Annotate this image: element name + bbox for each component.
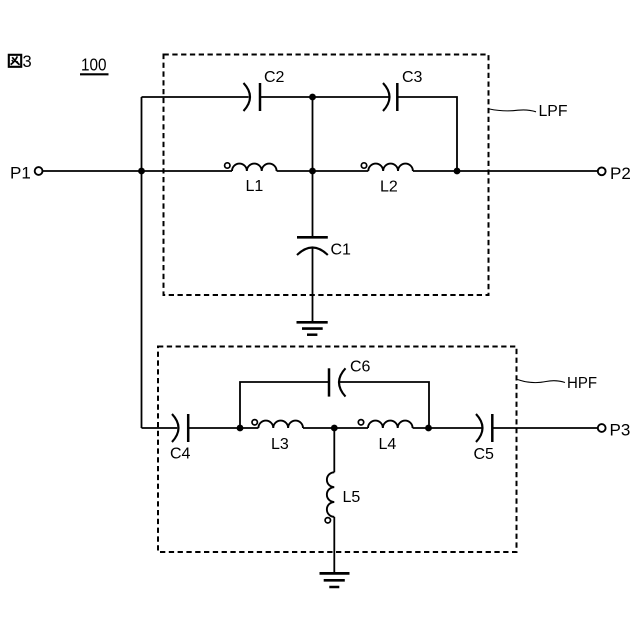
- capacitor C6: [329, 368, 346, 396]
- svg-text:C5: C5: [474, 446, 495, 463]
- terminal P3: [598, 424, 606, 432]
- svg-text:L2: L2: [380, 179, 398, 196]
- svg-text:C2: C2: [264, 69, 285, 86]
- label HPF with leader: [518, 380, 566, 383]
- terminal P1: [35, 167, 43, 175]
- svg-text:C6: C6: [350, 358, 371, 375]
- wire top branch to C2: [142, 96, 249, 98]
- capacitor C2: [244, 83, 261, 111]
- label LPF with leader: [490, 109, 537, 112]
- wire C2 to C3: [260, 96, 389, 98]
- wire C5 to P3: [492, 427, 598, 429]
- wire trunk corner to C4: [142, 427, 178, 429]
- LPF dashed box: [164, 55, 489, 296]
- svg-text:P2: P2: [610, 164, 631, 183]
- svg-text:HPF: HPF: [567, 375, 597, 392]
- wire C1 to ground: [312, 248, 314, 323]
- svg-text:L4: L4: [379, 436, 397, 453]
- svg-text:LPF: LPF: [539, 103, 568, 120]
- capacitor C4: [172, 414, 188, 442]
- wire center to L4: [334, 427, 368, 429]
- svg-text:P3: P3: [610, 421, 631, 440]
- node HPF right junction: [425, 425, 432, 432]
- wire L3 to center: [303, 427, 334, 429]
- node top center junction: [309, 94, 316, 101]
- svg-text:L5: L5: [343, 489, 361, 506]
- svg-text:3: 3: [23, 53, 32, 71]
- svg-text:C4: C4: [170, 446, 191, 463]
- wire C4 to L3: [188, 427, 258, 429]
- inductor L5: [325, 472, 334, 523]
- capacitor C3: [383, 83, 397, 111]
- svg-text:100: 100: [81, 55, 107, 75]
- wire input vertical trunk: [141, 97, 143, 428]
- capacitor C5: [476, 414, 492, 442]
- svg-text:C3: C3: [402, 69, 423, 86]
- wire center to L5: [333, 428, 335, 472]
- wire L4 to C5: [413, 427, 482, 429]
- ground HPF: [320, 573, 350, 587]
- svg-text:L1: L1: [246, 178, 264, 195]
- wire C3 to right corner: [397, 97, 457, 171]
- figure label 図3: [9, 55, 21, 67]
- wire L1 to center: [277, 170, 313, 172]
- node LPF center junction: [309, 168, 316, 175]
- node LPF output junction: [454, 168, 461, 175]
- wire L5 to ground: [333, 517, 335, 574]
- capacitor C1: [297, 237, 328, 255]
- inductor L2: [361, 163, 413, 171]
- ground LPF: [297, 322, 328, 334]
- inductor L1: [225, 163, 277, 171]
- wire P1 to L1: [43, 170, 232, 172]
- wire center vertical to C1: [312, 97, 314, 237]
- node HPF left junction: [237, 425, 244, 432]
- svg-text:L3: L3: [271, 436, 289, 453]
- node HPF center junction: [331, 425, 338, 432]
- wire C6 left branch: [240, 382, 329, 428]
- wire center to L2: [313, 170, 369, 172]
- inductor L4: [358, 420, 412, 428]
- wire L2 to P2: [413, 170, 598, 172]
- terminal P2: [598, 167, 606, 175]
- HPF dashed box: [158, 347, 517, 553]
- node input junction: [138, 168, 145, 175]
- svg-text:P1: P1: [10, 164, 31, 183]
- wire C6 right branch: [340, 382, 429, 428]
- svg-text:C1: C1: [331, 242, 352, 259]
- inductor L3: [252, 420, 303, 428]
